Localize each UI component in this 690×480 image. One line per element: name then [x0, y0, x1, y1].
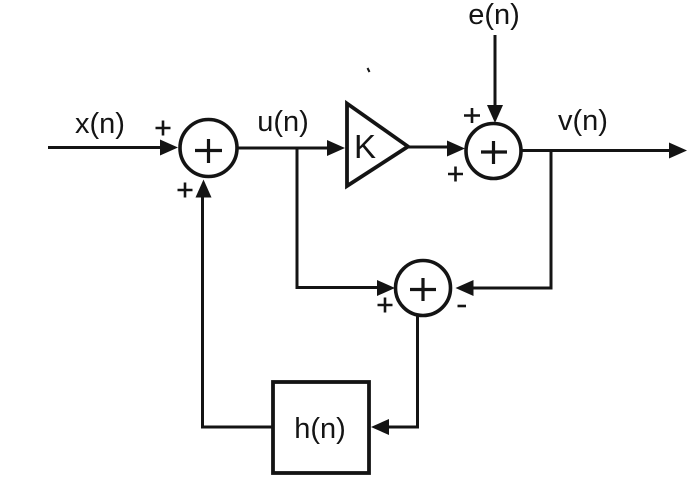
plus inside S1: [195, 139, 222, 163]
wire h(n) to S1 feedback: [203, 196, 274, 427]
wire input x(n): [48, 146, 163, 149]
arrowhead into K: [327, 140, 345, 156]
svg-text:e(n): e(n): [468, 0, 520, 31]
svg-text:h(n): h(n): [294, 413, 346, 445]
summer S3: [396, 261, 451, 316]
arrowhead into S2: [447, 141, 465, 157]
arrowhead into h(n) right: [371, 419, 389, 435]
arrowhead into S1: [160, 140, 178, 156]
stray scan mark: [368, 68, 370, 72]
arrowhead into S3 left: [377, 280, 395, 296]
arrowhead e(n) into S2 top: [487, 105, 503, 123]
plus sign at S3 left input: [378, 298, 393, 313]
minus sign at S3 right input: [458, 305, 467, 308]
wire S1 to K: [238, 147, 330, 150]
plus inside S3: [410, 278, 436, 301]
svg-text:K: K: [354, 128, 376, 165]
svg-text:u(n): u(n): [257, 106, 309, 138]
wire v(n) branch down to S3: [471, 151, 551, 289]
summer S2: [466, 124, 521, 179]
plus sign at S2 top input: [464, 108, 480, 123]
amplifier K: [347, 104, 408, 187]
plus sign at S1 input: [156, 121, 171, 136]
arrowhead output v(n): [669, 143, 687, 159]
svg-text:x(n): x(n): [75, 108, 125, 140]
wire S2 output v(n): [521, 149, 672, 152]
wire K to S2: [408, 146, 450, 149]
arrowhead into S1 bottom: [196, 180, 212, 198]
summer S1: [180, 120, 237, 177]
arrowhead into S3 right: [456, 280, 474, 296]
plus inside S2: [481, 141, 507, 164]
svg-text:v(n): v(n): [558, 105, 608, 137]
wire S3 down to h(n): [385, 316, 418, 428]
wire u(n) branch down to S3: [297, 148, 381, 288]
block h(n): [273, 382, 369, 473]
plus sign at S1 bottom feedback: [178, 183, 193, 198]
wire e(n) down into S2: [494, 35, 497, 108]
plus sign at S2 left input: [448, 167, 463, 182]
